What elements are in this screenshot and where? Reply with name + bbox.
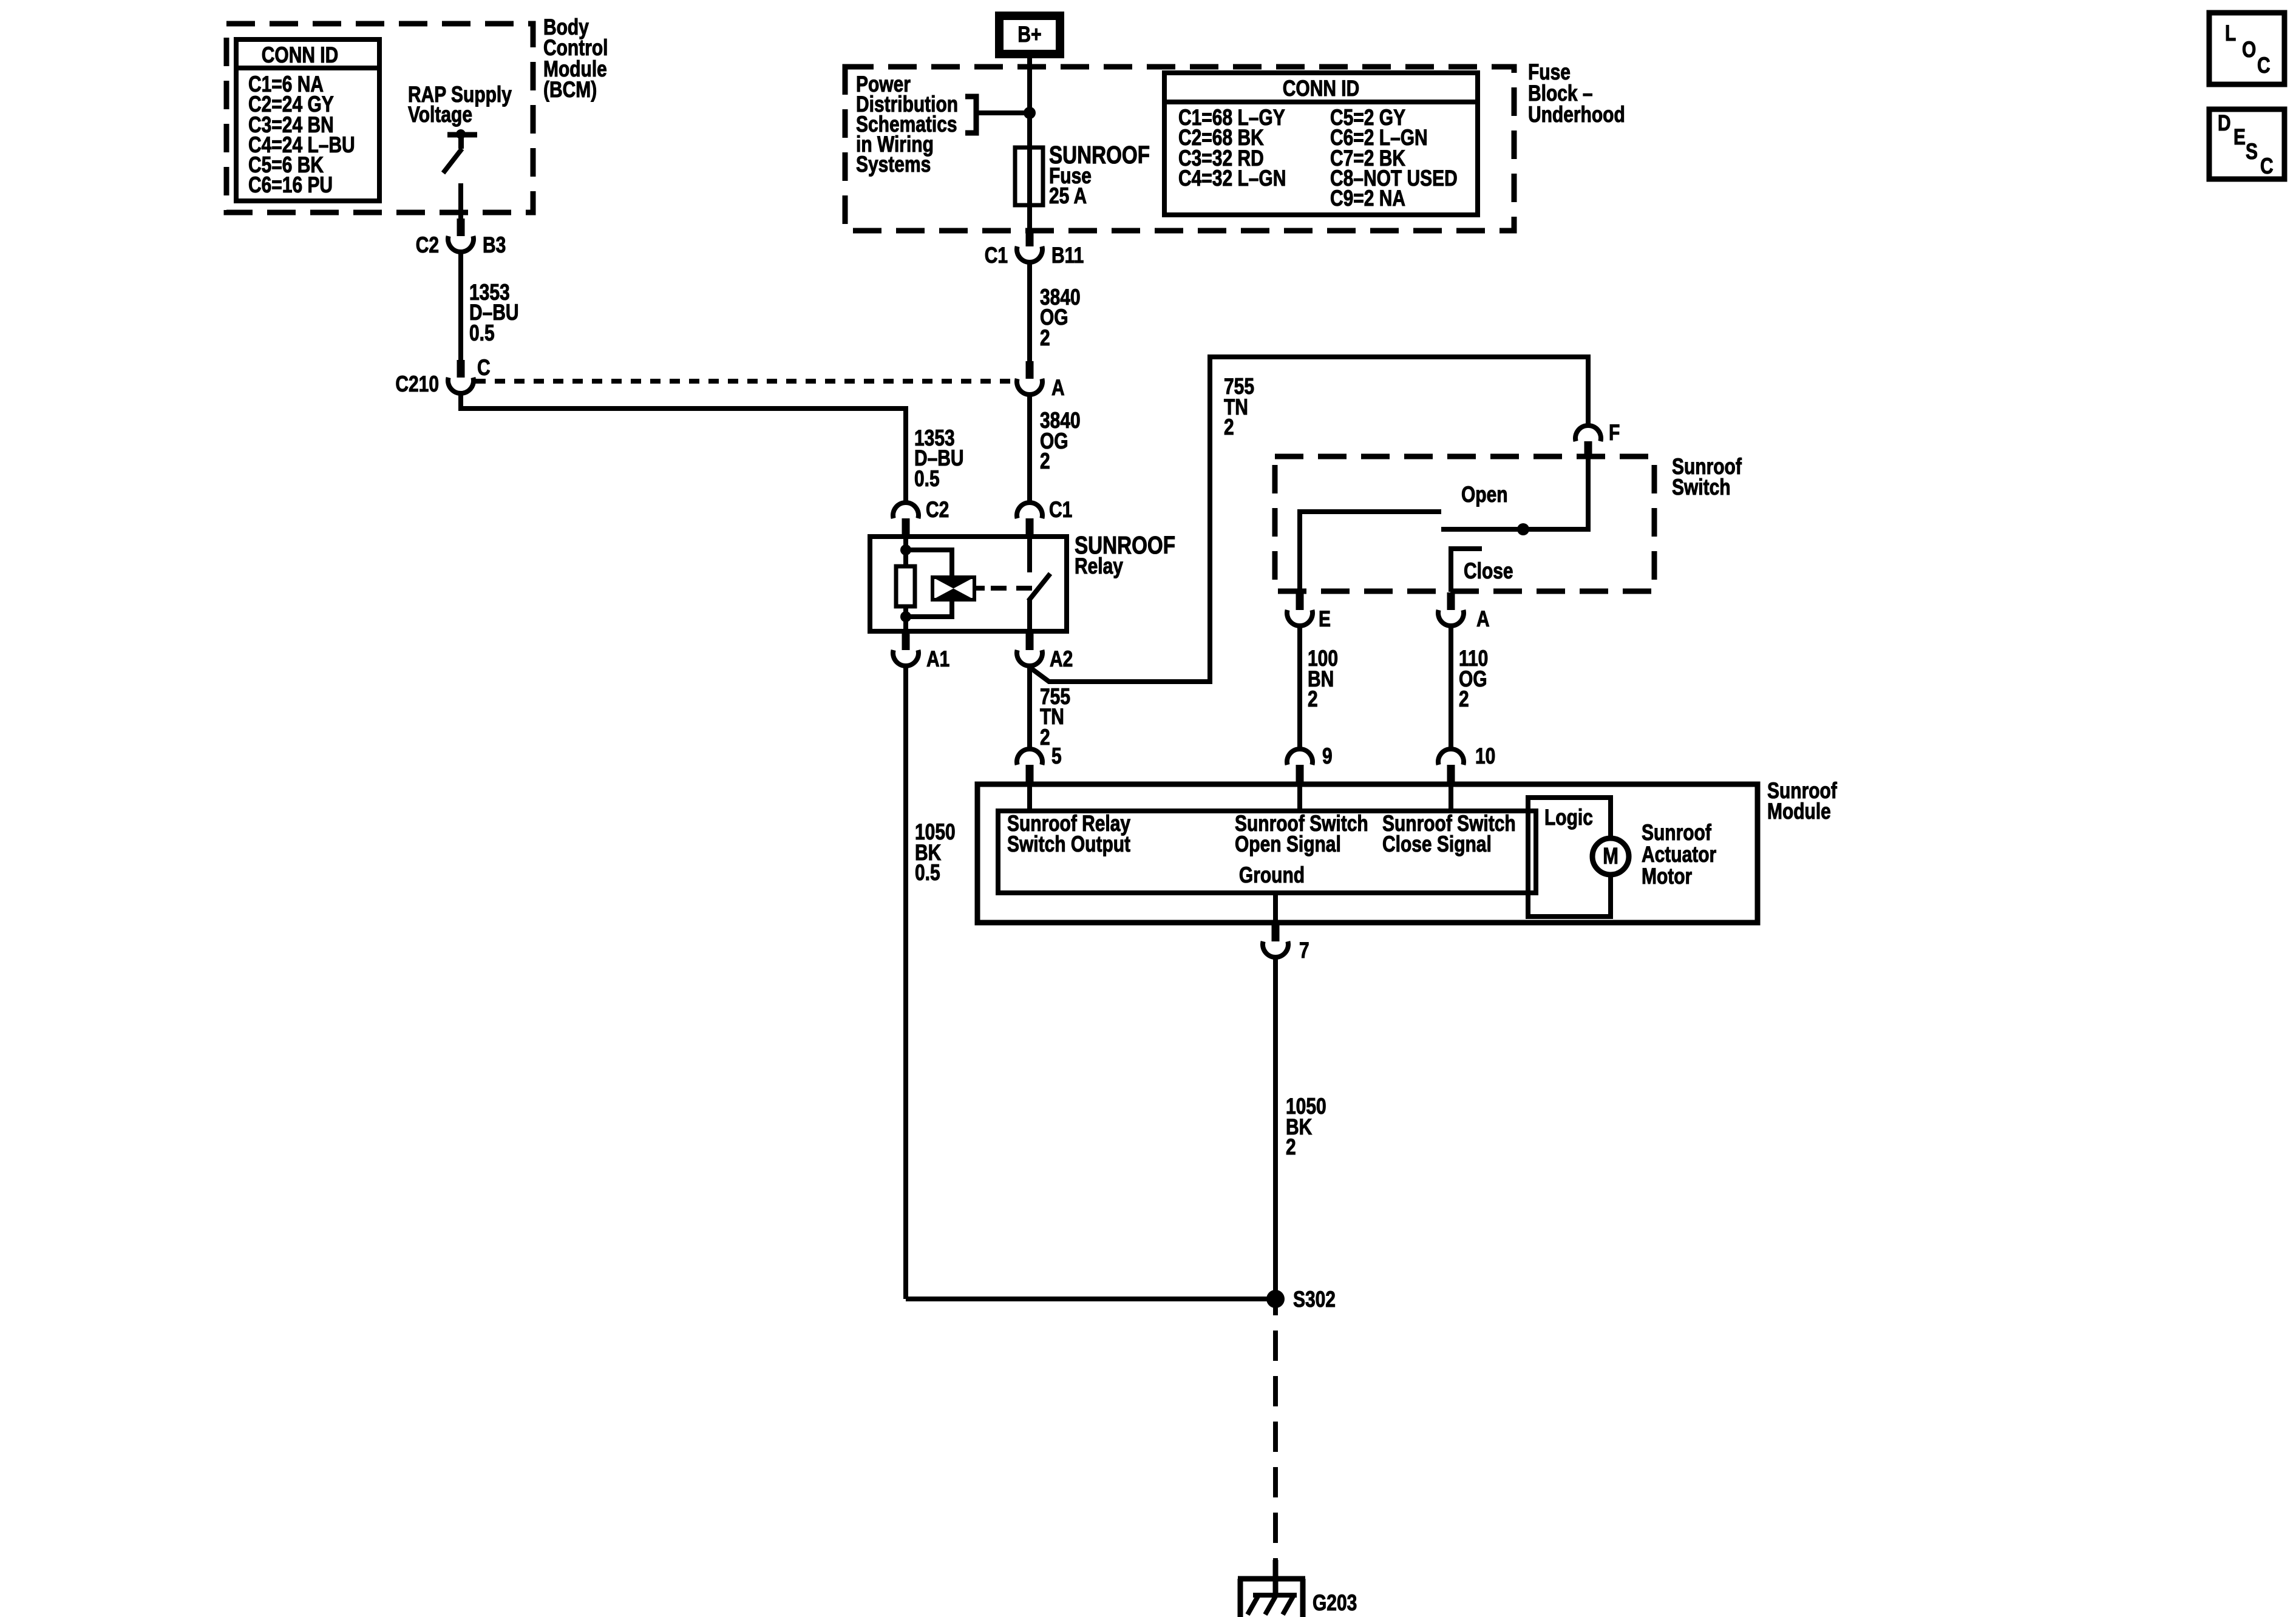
svg-text:2: 2: [1040, 449, 1050, 474]
svg-text:M: M: [1603, 844, 1618, 869]
svg-text:C2: C2: [926, 498, 949, 523]
svg-text:S: S: [2246, 140, 2258, 164]
svg-text:2: 2: [1308, 687, 1318, 712]
svg-text:O: O: [2242, 38, 2256, 63]
svg-text:Ground: Ground: [1239, 863, 1305, 888]
svg-text:Motor: Motor: [1642, 864, 1692, 889]
svg-text:C210: C210: [395, 372, 439, 397]
svg-text:Actuator: Actuator: [1642, 842, 1716, 867]
svg-text:Systems: Systems: [856, 152, 931, 177]
svg-text:B3: B3: [483, 233, 506, 258]
svg-text:Relay: Relay: [1075, 554, 1123, 579]
svg-text:Switch Output: Switch Output: [1007, 832, 1130, 857]
svg-text:Underhood: Underhood: [1528, 103, 1625, 127]
svg-text:2: 2: [1224, 415, 1234, 440]
svg-text:C9=2 NA: C9=2 NA: [1330, 186, 1405, 211]
svg-text:S302: S302: [1293, 1287, 1336, 1312]
svg-text:0.5: 0.5: [914, 467, 940, 492]
svg-text:C1: C1: [985, 243, 1008, 268]
svg-text:A: A: [1476, 607, 1490, 632]
svg-text:2: 2: [1040, 326, 1050, 351]
svg-text:0.5: 0.5: [469, 321, 495, 346]
svg-text:Voltage: Voltage: [408, 103, 472, 127]
svg-text:C1: C1: [1049, 498, 1072, 523]
svg-text:E: E: [1319, 607, 1331, 632]
svg-text:E: E: [2233, 125, 2246, 150]
svg-text:C: C: [477, 356, 491, 381]
svg-text:C4=32 L–GN: C4=32 L–GN: [1178, 166, 1286, 191]
svg-text:B+: B+: [1017, 22, 1041, 47]
svg-text:C: C: [2260, 154, 2274, 179]
svg-text:Open: Open: [1461, 483, 1508, 507]
svg-text:D: D: [2218, 111, 2231, 136]
svg-text:25 A: 25 A: [1049, 184, 1087, 209]
svg-text:L: L: [2225, 21, 2236, 46]
svg-text:Close: Close: [1464, 559, 1513, 584]
svg-text:5: 5: [1051, 744, 1062, 769]
svg-text:CONN ID: CONN ID: [1283, 76, 1359, 101]
svg-text:9: 9: [1322, 744, 1333, 769]
svg-text:2: 2: [1459, 687, 1469, 712]
svg-text:B11: B11: [1051, 243, 1084, 268]
svg-text:A2: A2: [1050, 647, 1073, 672]
svg-text:C6=16 PU: C6=16 PU: [248, 173, 333, 198]
svg-text:0.5: 0.5: [915, 861, 940, 886]
svg-text:10: 10: [1475, 744, 1495, 769]
svg-text:Close Signal: Close Signal: [1382, 832, 1492, 857]
svg-text:Module: Module: [1767, 799, 1831, 824]
svg-text:A: A: [1051, 376, 1065, 401]
svg-text:G203: G203: [1313, 1591, 1357, 1616]
svg-text:Logic: Logic: [1544, 805, 1593, 830]
svg-text:Switch: Switch: [1672, 475, 1731, 500]
svg-text:7: 7: [1299, 938, 1309, 963]
svg-text:A1: A1: [926, 647, 949, 672]
svg-text:C2: C2: [416, 233, 439, 258]
svg-text:Open Signal: Open Signal: [1235, 832, 1341, 857]
svg-text:(BCM): (BCM): [543, 78, 597, 103]
svg-text:CONN ID: CONN ID: [262, 43, 338, 68]
svg-text:F: F: [1609, 421, 1620, 446]
svg-text:Sunroof: Sunroof: [1642, 821, 1712, 846]
svg-text:C: C: [2257, 53, 2271, 78]
svg-text:2: 2: [1040, 725, 1050, 750]
svg-text:2: 2: [1286, 1135, 1296, 1160]
